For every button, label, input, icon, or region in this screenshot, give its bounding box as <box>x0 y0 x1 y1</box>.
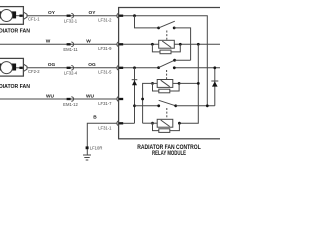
connector LF31-5 <box>98 65 123 74</box>
mechanical link K3 <box>166 108 168 118</box>
svg-text:LF32-4: LF32-4 <box>64 71 78 76</box>
relay K3 coil <box>143 119 181 127</box>
resistor R3 <box>153 123 180 132</box>
radiator fan control relay module box <box>119 8 223 139</box>
relay K2 switch <box>157 59 190 69</box>
resistor R1 <box>152 44 180 53</box>
relay K2 coil <box>151 80 200 88</box>
svg-text:LF10R: LF10R <box>90 146 103 151</box>
svg-text:LF32-1: LF32-1 <box>64 18 78 23</box>
wire B row <box>87 123 117 155</box>
svg-text:RELAY MODULE: RELAY MODULE <box>152 150 186 157</box>
mechanical link K2 <box>166 70 168 79</box>
radiator fan motor M1 <box>0 7 23 25</box>
wire to relay 3 common <box>135 105 159 107</box>
diode D1 <box>132 68 138 123</box>
svg-text:OY: OY <box>48 10 56 16</box>
wire to relay 1 common <box>135 16 159 28</box>
relay K3 switch <box>157 100 215 107</box>
relay K1 switch <box>157 21 190 60</box>
svg-text:LF31-7: LF31-7 <box>98 101 112 106</box>
connector LF32-1 <box>64 13 78 23</box>
connector EM1-11 <box>63 42 78 52</box>
connector LF31-2 <box>98 13 123 22</box>
wire B inside module <box>123 122 135 124</box>
relay K1 coil <box>151 40 182 48</box>
svg-text:OG: OG <box>88 62 96 68</box>
svg-text:CF2-2: CF2-2 <box>28 69 40 74</box>
svg-text:LF31-1: LF31-1 <box>98 126 112 131</box>
wire coil K2 to WU <box>143 83 153 123</box>
connector EM1-12 <box>63 97 78 107</box>
ground <box>83 155 91 160</box>
connector LF32-4 <box>64 66 78 76</box>
node junction on OG <box>133 66 136 69</box>
svg-text:CF1-1: CF1-1 <box>28 17 40 22</box>
connector LF31-1 <box>98 121 123 131</box>
svg-text:OY: OY <box>89 10 97 16</box>
svg-text:RADIATOR FAN: RADIATOR FAN <box>0 84 30 90</box>
svg-text:RADIATOR FAN: RADIATOR FAN <box>0 29 30 35</box>
svg-text:LF31-9: LF31-9 <box>98 46 112 51</box>
svg-text:B: B <box>93 115 97 121</box>
node relay 3 feed <box>133 104 136 107</box>
resistor R2 <box>153 83 180 92</box>
wire OY inside module <box>123 16 207 106</box>
wire OY row <box>27 15 118 17</box>
wire OG row <box>27 67 118 69</box>
wire W inside module <box>123 43 220 45</box>
radiator fan motor M2 <box>0 58 23 76</box>
svg-text:EM1-12: EM1-12 <box>63 102 78 107</box>
node junction on OY <box>133 14 136 17</box>
svg-text:EM1-11: EM1-11 <box>63 47 78 52</box>
diode D2 <box>211 66 218 105</box>
svg-text:LF31-5: LF31-5 <box>98 70 112 75</box>
connector LF10R <box>86 146 103 151</box>
svg-text:WU: WU <box>86 93 95 99</box>
wire from W down to coil rows <box>179 44 198 123</box>
connector CF1-1 <box>19 12 40 22</box>
wire WU row <box>0 98 118 100</box>
svg-text:OG: OG <box>48 62 56 68</box>
svg-text:W: W <box>86 39 91 45</box>
connector CF2-2 <box>19 64 40 74</box>
svg-text:W: W <box>46 39 51 45</box>
connector LF31-9 <box>98 42 123 51</box>
connector LF31-7 <box>98 97 123 106</box>
node WU junction <box>141 98 144 101</box>
mechanical link K1 <box>166 31 168 41</box>
node W to coil k2 <box>197 43 200 46</box>
wire OG inside module <box>123 67 159 69</box>
svg-text:LF31-2: LF31-2 <box>98 17 112 22</box>
wire W row <box>0 43 118 45</box>
svg-text:WU: WU <box>46 93 55 99</box>
